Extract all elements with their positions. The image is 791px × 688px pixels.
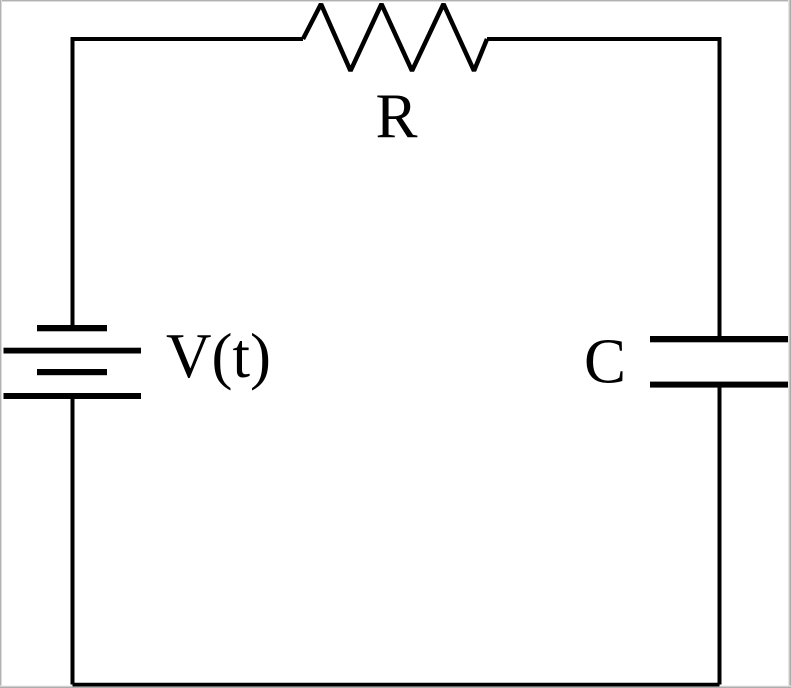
wire: bottom return rail xyxy=(73,683,720,687)
wire: battery + terminal up left side and across top to resistor left lead xyxy=(73,39,304,325)
wire: resistor right lead across top and down to capacitor top plate xyxy=(487,39,720,336)
capacitor C top plate xyxy=(650,336,788,342)
svg-text:R: R xyxy=(375,82,417,152)
wire: capacitor bottom plate down right side xyxy=(718,388,722,685)
battery plate 4 (long, bottom) xyxy=(4,393,142,399)
wire: bottom rail up to battery - terminal xyxy=(71,399,75,685)
resistor R (zigzag body) xyxy=(303,4,487,71)
battery plate 3 (short) xyxy=(37,369,107,375)
svg-text:C: C xyxy=(584,327,626,397)
svg-text:V(t): V(t) xyxy=(166,321,271,391)
battery V1 source V(t), multi-cell plates xyxy=(4,325,142,399)
capacitor C xyxy=(650,336,788,388)
battery plate 1 (short, top) xyxy=(37,325,107,331)
battery plate 2 (long) xyxy=(4,348,142,354)
capacitor C bottom plate xyxy=(650,382,788,388)
